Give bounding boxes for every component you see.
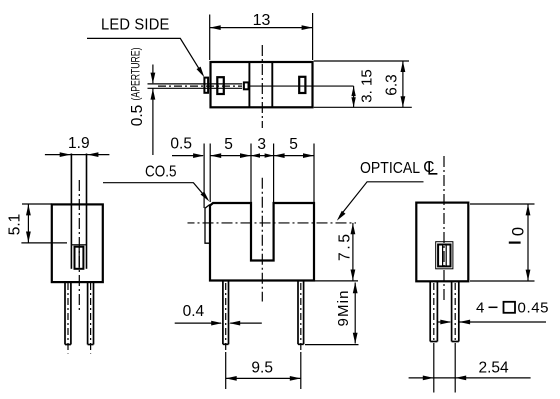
dim 5 right arrowheads xyxy=(274,153,285,158)
side view channel right wall xyxy=(86,154,88,269)
front view optical axis centerline xyxy=(188,222,357,224)
top view vertical centerline xyxy=(261,45,263,128)
top view LED lens protrusion xyxy=(204,78,208,93)
svg-text:LED SIDE: LED SIDE xyxy=(101,17,170,34)
front view left pin left edge xyxy=(222,282,224,345)
top view body outline xyxy=(211,62,313,107)
svg-text:2.54: 2.54 xyxy=(479,360,510,377)
side view left pin bottom cap xyxy=(65,344,71,346)
back view vertical centerline xyxy=(443,156,445,302)
svg-text:OPTICAL: OPTICAL xyxy=(360,160,420,177)
dim 2.54 left arrowhead xyxy=(423,376,434,381)
svg-text:9Min: 9Min xyxy=(335,291,352,327)
dim 9.5 arrowheads xyxy=(226,376,237,381)
dim 1.9 dimension line xyxy=(45,154,110,156)
dim 5 right dimension line xyxy=(274,155,314,157)
ext line protrusion left edge xyxy=(203,144,205,209)
front view left pin right edge xyxy=(228,282,230,345)
svg-text:1.9: 1.9 xyxy=(68,135,90,152)
top view detector aperture window xyxy=(299,77,305,93)
back view right pin centerline xyxy=(454,283,456,346)
svg-text:5: 5 xyxy=(224,136,233,153)
svg-text:(APERTURE): (APERTURE) xyxy=(129,48,143,101)
dim 5.1 dimension line xyxy=(27,204,29,243)
CO.5 leader arrowhead xyxy=(201,192,210,202)
dim 1.9 arrowheads xyxy=(60,152,71,157)
dim 6.3 upper arrowhead xyxy=(401,61,406,72)
dim 5.1 arrowheads xyxy=(26,204,31,215)
front view right pin bottom cap xyxy=(298,343,304,345)
svg-text:0.45: 0.45 xyxy=(518,300,549,317)
dim 13 left extension line xyxy=(209,15,211,61)
aperture dim upper arrowhead xyxy=(151,73,156,84)
back view left pin centerline xyxy=(433,283,435,346)
dim 3.15 dimension line xyxy=(353,86,355,107)
dim 13 right extension line xyxy=(312,13,314,60)
dim 9.5 dimension line xyxy=(226,377,301,379)
top view LED aperture window xyxy=(217,77,224,94)
dim 10 top extension line xyxy=(470,203,535,205)
pin bottom extension line right xyxy=(305,344,359,346)
ext line slot right wall xyxy=(273,144,275,203)
top view divider line left (slot wall) xyxy=(248,62,250,107)
dim 10 bottom extension line xyxy=(470,280,535,282)
front view slot centerline xyxy=(261,178,263,302)
svg-text:3: 3 xyxy=(257,136,266,153)
back view left pin left edge xyxy=(429,282,431,342)
aperture dim lower arrow line xyxy=(152,89,154,155)
side view right pin right edge xyxy=(93,282,95,345)
side view left pin left edge xyxy=(64,282,66,345)
dim 10 arrowheads xyxy=(526,204,531,215)
back view sensor inner line left xyxy=(442,245,444,267)
svg-text:0.5: 0.5 xyxy=(170,136,192,153)
front view right pin centerline xyxy=(300,283,302,352)
back view sensor outer window xyxy=(436,242,453,269)
pin size leader arrowhead right-pointing xyxy=(440,320,451,325)
svg-text:6.3: 6.3 xyxy=(384,74,401,96)
back view body outline xyxy=(416,203,468,282)
dim 5.1 bottom extension line xyxy=(21,242,67,244)
dim 9.5 right extension line xyxy=(300,352,302,389)
dim 3 arrowheads xyxy=(251,153,260,157)
ext line front body right edge xyxy=(313,144,315,203)
dim 2.54 left extension line xyxy=(433,346,435,393)
front body bottom edge extension right xyxy=(315,280,358,282)
back view sensor inner line right xyxy=(445,245,447,267)
svg-text:13: 13 xyxy=(253,12,271,29)
dim 2.54 right leader line xyxy=(455,377,530,379)
side view body outline xyxy=(52,204,103,282)
side view sensor top tick xyxy=(71,244,86,246)
front view lens protrusion xyxy=(205,205,210,244)
svg-text:5: 5 xyxy=(289,136,298,153)
front view left pin bottom cap xyxy=(223,343,229,345)
dim 5.1 top extension line xyxy=(22,203,52,205)
dim 5 left dimension line xyxy=(210,155,251,157)
optical axis line right of chip xyxy=(249,85,354,87)
side view left pin right edge xyxy=(70,282,72,345)
dim 2.54 right arrowhead xyxy=(455,376,466,381)
front view right pin left edge xyxy=(297,282,299,345)
ext line front body left edge xyxy=(209,144,211,203)
pin size leader line left segment xyxy=(438,321,450,323)
pin size leader arrowhead left-pointing xyxy=(459,320,470,325)
dim 6.3 lower arrowhead xyxy=(401,96,406,107)
back view sensor element xyxy=(438,245,450,267)
dim 2.54 right extension line xyxy=(454,346,456,393)
svg-text:3. 15: 3. 15 xyxy=(359,69,376,102)
top view divider line right (slot wall) xyxy=(271,62,273,107)
back view left pin bottom cap xyxy=(430,341,437,343)
dim 2.54 middle segment xyxy=(434,377,455,379)
dim 0.5 arrowhead xyxy=(193,153,204,158)
back view left pin right edge xyxy=(436,282,438,342)
dim 9Min arrowheads xyxy=(353,282,358,293)
side view right pin bottom cap xyxy=(88,344,94,346)
side view sensor element xyxy=(75,247,84,269)
pin size leader line right segment xyxy=(459,321,546,323)
dim 6.3 dimension line xyxy=(402,61,404,107)
dim 13 dimension line xyxy=(210,27,313,29)
side view sensor inner line xyxy=(78,247,80,269)
svg-text:5.1: 5.1 xyxy=(7,214,24,236)
dim 0.4 right leader line xyxy=(230,322,261,324)
aperture dim upper arrow line xyxy=(152,65,154,84)
side view right pin centerline xyxy=(90,283,92,354)
dim 3 dimension line xyxy=(251,155,274,157)
dim 13 right arrowhead xyxy=(302,25,313,30)
front view body outline xyxy=(210,203,314,281)
dim 9Min dimension line xyxy=(354,283,356,344)
side view body centerline xyxy=(78,180,80,311)
aperture line lower xyxy=(148,87,243,89)
side view right pin left edge xyxy=(87,282,89,345)
svg-text:0: 0 xyxy=(510,227,528,236)
dim 1.9 left ext is channel wall xyxy=(70,154,72,155)
dim 2.54 left leader line xyxy=(409,377,434,379)
dim 10 dimension line xyxy=(527,204,529,281)
back view right pin left edge xyxy=(451,282,453,342)
dim 0.4 right arrowhead xyxy=(229,321,240,326)
top view top edge extension right xyxy=(314,60,409,62)
front view left pin centerline xyxy=(225,283,227,352)
top view bottom edge extension right xyxy=(314,106,412,108)
dim 9.5 left extension line xyxy=(225,352,227,389)
aperture line upper xyxy=(148,83,243,85)
optical axis dash-dot in aperture xyxy=(158,85,242,87)
dim 3.15 upper arrowhead xyxy=(351,86,355,96)
back view right pin right edge xyxy=(458,282,460,342)
svg-text:0.5: 0.5 xyxy=(129,105,146,127)
side view left pin centerline xyxy=(67,283,69,354)
CO.5 leader line xyxy=(103,183,208,200)
top view sensor chip square xyxy=(244,82,249,89)
OPTICAL leader arrowhead xyxy=(337,211,346,221)
LED SIDE leader arrowhead xyxy=(197,67,205,78)
dim 13 left arrowhead xyxy=(210,25,221,30)
centerline symbol L stroke xyxy=(429,162,437,174)
svg-text:4: 4 xyxy=(476,300,484,317)
svg-text:CO.5: CO.5 xyxy=(145,164,177,181)
aperture dim lower arrowhead xyxy=(151,89,156,100)
dim 0.4 left leader line xyxy=(175,322,221,324)
back view right pin bottom cap xyxy=(452,341,459,343)
ext line slot left wall xyxy=(250,144,252,203)
svg-text:0.4: 0.4 xyxy=(183,303,205,320)
side view channel left wall xyxy=(70,154,72,269)
svg-text:9.5: 9.5 xyxy=(251,360,273,377)
svg-text:7.5: 7.5 xyxy=(337,234,354,261)
LED SIDE leader line xyxy=(87,38,202,73)
dim 0.4 left arrowhead xyxy=(211,321,222,326)
dim 7.5 dimension line xyxy=(352,223,354,281)
dim 5 left arrowheads xyxy=(210,153,221,158)
front view right pin right edge xyxy=(303,282,305,345)
dim 7.5 arrowheads xyxy=(351,223,356,234)
dim 0.5 leader line xyxy=(172,155,203,157)
OPTICAL leader line xyxy=(340,182,424,217)
dim 3.15 lower arrowhead xyxy=(351,97,355,107)
